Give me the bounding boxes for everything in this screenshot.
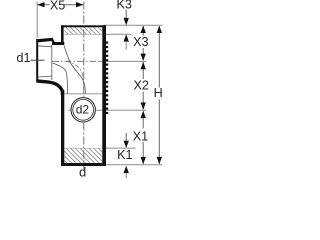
wire: socket depth line branch <box>51 45 53 80</box>
svg-text:X2: X2 <box>133 79 148 93</box>
wire: branch bore taper bottom <box>38 76 52 77</box>
arrow X3 top up <box>141 26 146 33</box>
wire: bottom socket hatch <box>50 146 114 164</box>
wire: extension line bottom end <box>104 164 163 166</box>
svg-text:K3: K3 <box>116 0 131 11</box>
arrow X5 right <box>76 2 83 7</box>
wire: extension line top end <box>104 24 163 26</box>
svg-text:H: H <box>154 86 163 100</box>
wire: branch mouth line <box>36 39 38 83</box>
wire: branch collar bottom and curve <box>37 81 63 95</box>
arrow H top up <box>157 26 162 33</box>
arrow K3 up <box>124 34 129 41</box>
wire: bend inner sweep arc <box>53 63 68 94</box>
wire: pipe right edge <box>102 25 106 166</box>
svg-text:X3: X3 <box>133 35 148 49</box>
arrow X3 bottom down <box>141 54 146 61</box>
node main vertical centerline <box>83 2 85 98</box>
wire: branch collar top <box>37 39 54 41</box>
svg-text:d: d <box>79 165 86 180</box>
wire: bend outer sweep arc <box>64 46 86 94</box>
svg-text:d1: d1 <box>16 51 30 65</box>
arrow X1 bottom down <box>141 157 146 164</box>
wire: extension line branch axis <box>98 60 147 62</box>
wire: extension line X2/X1 boundary <box>69 109 147 111</box>
node branch axis centerline <box>52 60 98 62</box>
svg-text:X5: X5 <box>50 0 65 13</box>
d1 leader <box>31 59 45 61</box>
dimension H at x=159.3 <box>158 26 160 88</box>
wire: pipe left edge lower <box>61 90 64 166</box>
arrow X2 top up <box>141 62 146 69</box>
wire: extension line X5 left <box>36 2 38 39</box>
arrow K1 down <box>124 141 129 148</box>
arrow K3 down <box>124 18 129 25</box>
arrow H bottom down <box>157 157 162 164</box>
wire: pipe top edge <box>61 25 106 27</box>
wire: extension line K1 socket depth <box>104 147 136 149</box>
balloon d2 <box>70 97 96 123</box>
node bend axis arc <box>66 61 84 85</box>
arrow X1 top up <box>141 111 146 118</box>
wire: branch step <box>52 39 54 43</box>
arrow K1 up below line <box>124 166 129 173</box>
wire: pipe left edge upper <box>61 25 64 45</box>
dimension K3 <box>125 10 127 20</box>
dimension K1 <box>125 133 127 142</box>
wire: pipe bottom edge <box>61 163 106 166</box>
dimension X5 <box>37 4 49 6</box>
wire: ribs on right edge <box>106 42 108 115</box>
dimension column X3/X2/X1 at x=143.2 <box>142 26 144 36</box>
wire: extension line K3 socket depth <box>104 33 132 35</box>
wire: top socket depth line <box>64 33 102 35</box>
arrow X5 left <box>37 2 44 7</box>
wire: branch upper line to pipe <box>52 42 64 45</box>
svg-text:X1: X1 <box>133 129 148 143</box>
svg-text:K1: K1 <box>117 148 132 162</box>
svg-text:d2: d2 <box>76 103 90 117</box>
arrow X2 bottom down <box>141 103 146 110</box>
wire: branch bore taper top <box>38 46 52 47</box>
wire: junction base line <box>64 93 102 95</box>
wire: top socket hatch <box>58 24 113 38</box>
wire: bottom socket depth line <box>64 147 102 149</box>
